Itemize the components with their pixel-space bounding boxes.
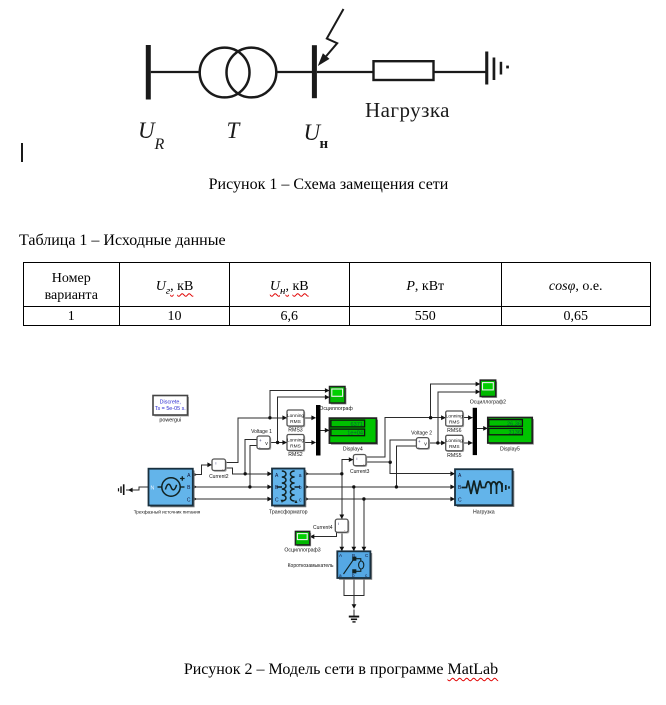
svg-text:Discrete,: Discrete, [160,400,182,406]
transformer T (two circles) [200,48,277,98]
svg-text:RMS: RMS [449,444,460,450]
wire bus2 to load [317,71,374,73]
node on RMS1 line [268,416,271,419]
bus U_H [312,45,317,98]
Current2 block [209,459,229,480]
wire: source N to ground [126,487,149,490]
wire: transformer a to riser node [305,473,342,475]
ground left (sideways) [118,484,125,495]
svg-text:Нагрузка: Нагрузка [473,510,495,516]
svg-text:н: н [320,136,329,152]
svg-text:RMS5: RMS5 [447,453,462,459]
wire: branch to scope2 input1 [431,384,480,418]
svg-text:R: R [154,136,165,153]
Display4 [329,418,378,452]
load rectangle [374,61,434,80]
wire: breaker bottoms merge to ground [344,578,364,595]
svg-text:Voltage 1: Voltage 1 [251,429,272,435]
wire: B column to breaker [353,487,355,551]
wire: V2 branch up to scope2 input2 [438,392,480,443]
svg-text:Current2: Current2 [209,474,229,480]
mux 2 [473,408,477,455]
svg-text:26.36: 26.36 [507,421,521,427]
wire: RMS4 out to mux2 [463,442,472,444]
svg-text:T: T [227,118,242,143]
text cursor [21,143,23,162]
output port nubs: transformer a,b,c [305,472,309,502]
wire: Current3 signal to RMS3 [366,418,445,457]
svg-text:RMS: RMS [449,420,460,426]
svg-text:Короткозамыкатель: Короткозамыкатель [288,563,334,569]
wire: transformer c to load C [305,498,455,500]
scope Осциллограф3 [284,531,320,553]
svg-text:Lonning: Lonning [287,413,304,419]
svg-text:RMS: RMS [290,444,301,450]
source block (3-phase source) [134,469,201,515]
wire: V1 out to RMS2 [270,442,287,444]
wire: Current3 through-port to A node [366,461,390,463]
wire: V2 out to RMS4 [429,442,446,444]
svg-text:v: v [265,441,268,447]
svg-text:RMS: RMS [290,419,301,425]
wire: RMS1 out to mux1 [304,417,316,419]
wire load to ground [434,71,487,73]
svg-text:Current3: Current3 [350,469,370,475]
bus U_R [146,45,151,100]
wire: V1 branch up to scope1 input2 [278,397,330,442]
Voltage1 block [251,429,272,450]
Current3 block [350,455,370,476]
table 1: input data [23,262,651,325]
svg-text:Трехфазный источник питания: Трехфазный источник питания [134,509,201,515]
svg-text:a: a [299,473,302,479]
scope Осциллограф2 [470,380,506,406]
wire: mux2 to Display5 [477,427,487,429]
svg-text:RMS6: RMS6 [447,428,462,434]
wire: mux1 to Display4 [321,429,330,431]
transformer block [269,469,308,516]
svg-text:Lonning: Lonning [446,414,463,420]
svg-text:i: i [357,456,358,461]
svg-text:N: N [151,485,155,491]
svg-text:Трансформатор: Трансформатор [269,510,308,516]
svg-text:Осциллограф2: Осциллограф2 [470,400,506,406]
svg-text:b: b [299,485,302,491]
wire bus1 to transformer [151,71,200,73]
wire: Current2 through-port down to A line [226,468,272,474]
wire: V1 minus tap on B line [250,446,257,487]
RMS3 block [446,411,464,434]
wire: V2 minus tap on B line [396,446,416,487]
wire: A column to Current3 and down to Current4 [342,460,353,519]
powergui block [153,396,189,424]
wire: A continuation down from node to load A [390,462,454,474]
svg-text:1e+04: 1e+04 [347,431,363,437]
figure 1 caption [209,176,449,194]
wire: Current4 signal to scope3 [310,532,337,536]
svg-text:Ts = 5e-05 s.: Ts = 5e-05 s. [155,406,186,412]
wire: C column to breaker [363,499,365,551]
svg-text:C: C [275,497,279,503]
ground (sideways earth) [485,52,509,85]
ground bottom [353,610,355,617]
svg-text:3136: 3136 [509,430,521,436]
figure 2 caption [184,661,498,679]
lightning bolt (short-circuit) [326,9,343,56]
svg-text:C: C [458,497,462,503]
wire: Current4 to breaker A [341,532,343,551]
Voltage2 block [411,430,432,449]
RMS4 block [446,435,464,459]
svg-text:Lonning: Lonning [287,438,304,444]
svg-text:i: i [216,460,217,465]
svg-text:C: C [187,497,191,503]
svg-text:6371: 6371 [351,422,363,428]
wire: branch up to scope1 input1 [270,391,329,418]
svg-text:a: a [339,573,342,578]
wire: Current2 signal up to RMS1 line [226,418,287,463]
svg-text:B: B [352,553,355,558]
svg-text:RMS3: RMS3 [288,427,303,433]
svg-text:+: + [259,438,262,443]
svg-text:RMS2: RMS2 [288,452,303,458]
output port nubs: source A,B,C [193,472,197,501]
svg-text:v: v [424,441,427,447]
Current4 block [313,519,349,533]
wire: V1 plus tap on A line [245,440,256,474]
svg-text:U: U [138,118,156,143]
wire: source A up to Current2 [193,465,212,475]
svg-text:b: b [352,573,355,578]
wire: transformer b to load B [305,486,455,488]
svg-text:+: + [418,439,421,444]
load block [455,469,514,515]
scope Осциллограф [319,387,353,412]
svg-text:Lonning: Lonning [446,438,463,444]
RMS1 block [287,410,305,433]
svg-text:Display5: Display5 [500,446,520,452]
svg-text:Current4: Current4 [313,525,333,531]
RMS2 block [287,435,305,459]
svg-text:i: i [338,521,339,526]
wire: source B to transformer [193,486,272,488]
svg-text:Display4: Display4 [343,446,363,452]
table 1 label [19,232,226,250]
Display5 [488,418,534,453]
svg-text:Осциллограф: Осциллограф [319,406,353,412]
mux 1 [316,405,321,456]
svg-text:powergui: powergui [159,417,181,423]
svg-text:Нагрузка: Нагрузка [365,98,450,122]
breaker block (short-circuiter) [288,551,373,580]
wire: V2 plus down to A node [390,440,416,462]
wire: RMS2 out to mux1 [304,442,316,444]
wire: source C to transformer [193,498,272,500]
svg-text:Voltage 2: Voltage 2 [411,430,432,436]
wire: RMS3 out to mux2 [463,417,472,419]
wire transformer to bus2 [277,71,312,73]
svg-text:Осциллограф3: Осциллограф3 [284,548,320,554]
